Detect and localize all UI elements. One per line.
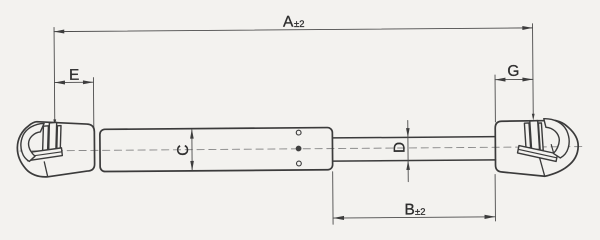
right eye body (capsule) xyxy=(495,120,578,177)
left eye hook (ring seen edge-on) xyxy=(21,123,45,161)
arrowhead G right xyxy=(522,77,533,81)
left bracket plate inner edge xyxy=(27,152,62,157)
right slabs (clamp plates) xyxy=(524,123,530,148)
D measure line (rod diameter) xyxy=(407,120,409,181)
cylinder (pressure tube) xyxy=(100,128,333,172)
vent hole top xyxy=(296,130,301,135)
G left extension line xyxy=(494,75,496,122)
small arrow at left extension tip xyxy=(53,119,56,126)
extension line left (A/E datum, eye centre) xyxy=(53,27,56,119)
arrowhead A left xyxy=(54,30,64,34)
right eye crease xyxy=(539,156,545,176)
label A±2 xyxy=(283,13,305,30)
svg-text:G: G xyxy=(507,63,519,80)
small arrow at right extension tip xyxy=(532,114,535,121)
right bracket plate inner edge xyxy=(518,149,557,158)
right eye hook xyxy=(544,118,569,158)
svg-text:A: A xyxy=(283,14,294,31)
left eye crease xyxy=(44,162,47,177)
right plate end face (seen through eye) xyxy=(551,145,553,154)
extension line right (A/G datum, eye centre) xyxy=(532,24,535,114)
dimension G line xyxy=(495,78,533,80)
label B±2 xyxy=(404,201,425,218)
C measure arrow (tube diameter) xyxy=(191,130,193,170)
svg-text:C: C xyxy=(175,145,192,156)
piston rod bottom line xyxy=(334,160,496,161)
vent hole middle (on centreline) xyxy=(296,146,302,152)
dimension A±2 line xyxy=(54,28,532,32)
svg-text:B: B xyxy=(404,201,414,218)
dimension B±2 line xyxy=(333,217,495,218)
svg-text:D: D xyxy=(391,142,408,153)
vent hole bottom xyxy=(296,161,301,166)
piston rod top line xyxy=(333,137,495,138)
left bracket plate (foot) xyxy=(26,148,63,161)
arrowhead A right xyxy=(522,26,532,30)
right bracket plate (foot) xyxy=(517,145,557,162)
centerline (dash) xyxy=(20,147,586,151)
arrowhead B right xyxy=(485,215,496,219)
arrowhead E right xyxy=(83,80,94,84)
arrowhead G left xyxy=(495,78,505,82)
svg-text:±2: ±2 xyxy=(294,19,305,30)
svg-text:E: E xyxy=(69,67,79,84)
left slabs (clamp plates) xyxy=(42,126,48,152)
left eye body (capsule) xyxy=(17,121,95,177)
arrowhead B left xyxy=(333,216,344,220)
dimension E line xyxy=(54,81,93,83)
E right extension line xyxy=(92,78,94,131)
svg-text:±2: ±2 xyxy=(415,207,426,218)
arrowhead E left xyxy=(54,81,65,85)
B right extension line (body of right eye) xyxy=(494,174,496,220)
B left extension line (cylinder end) xyxy=(332,172,334,224)
